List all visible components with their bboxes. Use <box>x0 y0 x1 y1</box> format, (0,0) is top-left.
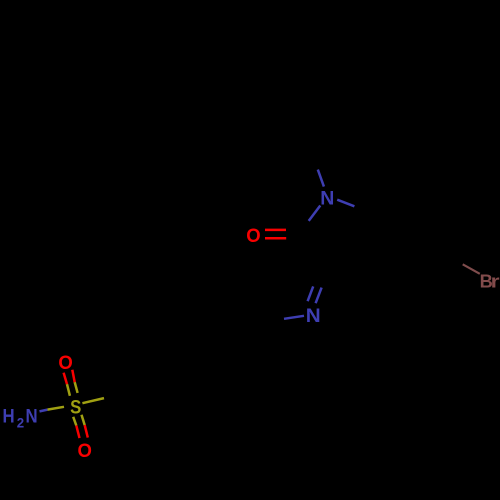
wire C3=N imine double bond line 1 (N half) <box>308 286 314 301</box>
svg-text:N: N <box>320 187 334 209</box>
wire S=O upper double bond line 1 (O half red) <box>64 373 67 385</box>
svg-text:N: N <box>25 406 37 427</box>
wire S=O lower double bond line 1 (S half olive) <box>73 417 76 426</box>
svg-text:r: r <box>491 271 500 291</box>
wire N1-C2 bond (N half) <box>309 206 321 221</box>
wire S-C(aryl) bond (S half) <box>82 398 104 403</box>
wire C5-Br bond (Br half) <box>463 264 480 274</box>
wire S=O upper double bond line 2 (S half olive) <box>75 382 78 393</box>
wire S=O lower double bond line 1 (O half red) <box>76 426 79 439</box>
wire S=O lower double bond line 2 (S half olive) <box>82 415 85 425</box>
wire N-S bond (N half) <box>40 410 48 412</box>
wire N1-CH3 bond (N half) <box>318 170 324 187</box>
svg-text:2: 2 <box>17 415 25 430</box>
wire C2=O carbonyl double bond line 2 (O half) <box>265 237 286 240</box>
svg-text:N: N <box>306 306 321 327</box>
wire S=O upper double bond line 1 (S half olive) <box>67 384 70 396</box>
wire C(aryl)-N imine bond (N half) <box>284 316 304 319</box>
svg-text:O: O <box>58 352 72 374</box>
wire C2=O carbonyl double bond line 1 (O half) <box>265 229 286 232</box>
wire S=O lower double bond line 2 (O half red) <box>85 425 88 438</box>
svg-text:S: S <box>70 396 81 417</box>
wire N1-C7a bond (N half) <box>337 200 354 207</box>
wire S=O upper double bond line 2 (O half red) <box>72 370 74 382</box>
sulfonamide amine label H2N <box>3 406 38 431</box>
wire C3=N imine double bond line 2 (N half) <box>316 288 322 304</box>
wire N-S bond (S half) <box>48 407 65 410</box>
svg-text:O: O <box>246 225 260 247</box>
svg-text:O: O <box>78 441 92 463</box>
svg-text:H: H <box>3 406 15 427</box>
